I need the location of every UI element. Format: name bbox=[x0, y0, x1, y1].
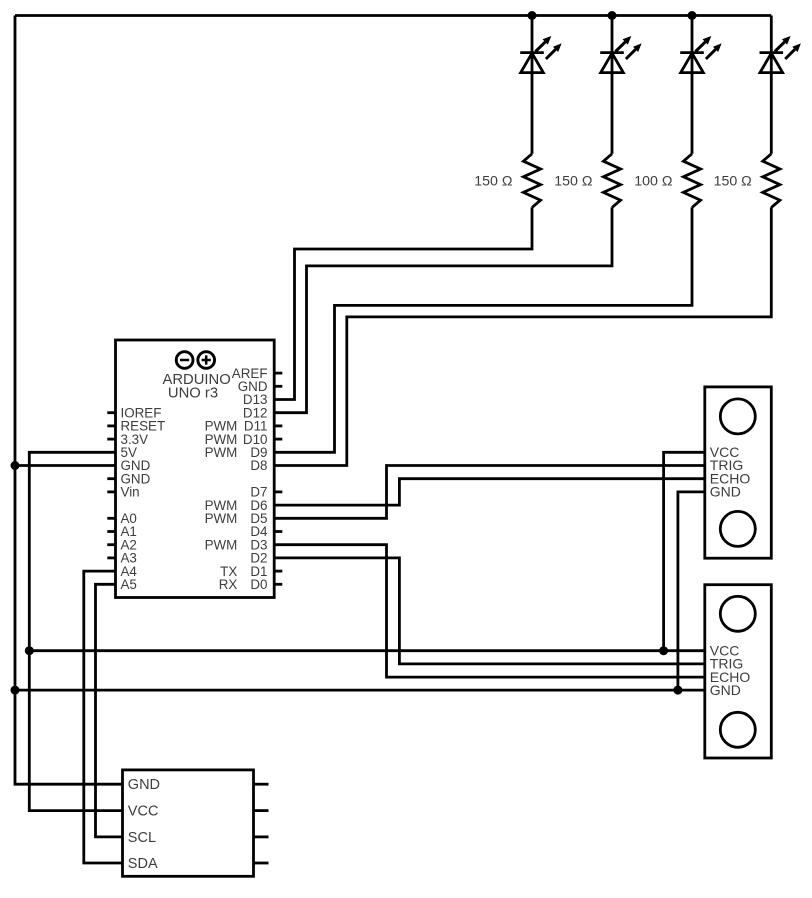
svg-text:100 Ω: 100 Ω bbox=[634, 173, 672, 189]
svg-text:150 Ω: 150 Ω bbox=[474, 173, 512, 189]
svg-text:SCL: SCL bbox=[128, 830, 156, 846]
svg-text:PWM: PWM bbox=[205, 511, 238, 526]
svg-text:VCC: VCC bbox=[128, 804, 159, 820]
svg-text:SDA: SDA bbox=[128, 856, 158, 872]
svg-text:150 Ω: 150 Ω bbox=[714, 173, 752, 189]
svg-text:D0: D0 bbox=[250, 577, 267, 592]
svg-text:D8: D8 bbox=[250, 458, 267, 473]
svg-text:GND: GND bbox=[710, 682, 741, 698]
svg-text:GND: GND bbox=[710, 484, 741, 500]
svg-text:Vin: Vin bbox=[121, 485, 140, 500]
svg-text:PWM: PWM bbox=[205, 537, 238, 552]
svg-text:150 Ω: 150 Ω bbox=[554, 173, 592, 189]
svg-text:PWM: PWM bbox=[205, 445, 238, 460]
svg-text:A5: A5 bbox=[121, 577, 137, 592]
svg-text:GND: GND bbox=[128, 777, 160, 793]
svg-text:UNO r3: UNO r3 bbox=[168, 385, 218, 401]
svg-text:RX: RX bbox=[219, 577, 238, 592]
